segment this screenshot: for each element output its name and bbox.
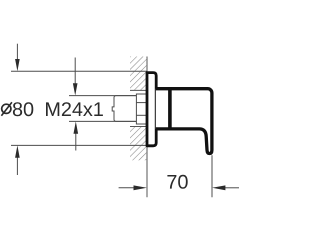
- handle hub divider: [168, 87, 172, 130]
- retaining nut: [136, 94, 147, 124]
- wall hole top edge: [130, 89, 147, 91]
- valve body (in-wall cartridge): [112, 96, 136, 122]
- wall hatch lower: [130, 127, 147, 161]
- dimension text 70: [167, 175, 187, 189]
- leader arrow M24 top: [73, 58, 78, 96]
- handle and sleeve outline: [156, 89, 212, 154]
- dimension text M24x1: [46, 102, 103, 116]
- extension line M24 bottom / valve body bottom edge: [69, 120, 136, 122]
- extension line Ø80 top: [11, 70, 147, 72]
- dimension text 80: [13, 102, 33, 116]
- wall face line: [146, 57, 148, 198]
- dimension 70 line left with arrow: [119, 185, 147, 190]
- dimension 70 extension line right: [211, 155, 213, 197]
- dimension symbol diameter: [1, 102, 12, 116]
- wall hatch upper: [130, 57, 147, 91]
- dimension 70 line right with arrow: [212, 185, 239, 190]
- escutcheon flange: [147, 73, 156, 146]
- leader arrow M24 bottom: [74, 121, 79, 150]
- leader arrow Ø80 bottom: [15, 145, 20, 175]
- extension line Ø80 bottom: [11, 144, 146, 146]
- wall hole bottom edge: [130, 126, 147, 128]
- extension line M24 top / valve body top edge: [69, 95, 136, 97]
- leader arrow Ø80 top: [15, 44, 20, 72]
